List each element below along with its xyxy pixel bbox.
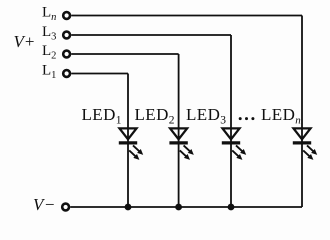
svg-text:V+: V+ [14,32,35,51]
svg-text:LED1: LED1 [82,105,122,127]
svg-text:L2: L2 [42,43,56,62]
svg-text:LED3: LED3 [186,105,226,127]
svg-text:V−: V− [33,195,54,214]
svg-text:Ln: Ln [42,5,56,24]
svg-text:L1: L1 [42,63,56,82]
svg-text:LEDn: LEDn [261,105,301,127]
svg-text:L3: L3 [42,24,56,43]
svg-text:LED2: LED2 [135,105,175,127]
